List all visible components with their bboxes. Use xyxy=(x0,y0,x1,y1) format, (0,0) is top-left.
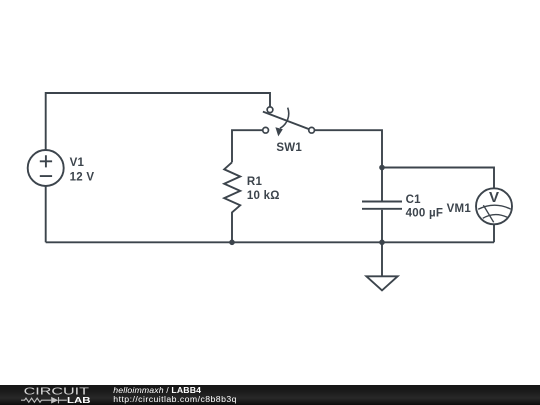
svg-text:V: V xyxy=(489,189,499,206)
svg-text:SW1: SW1 xyxy=(276,142,302,154)
svg-text:10 kΩ: 10 kΩ xyxy=(247,190,280,202)
svg-text:http://circuitlab.com/c8b8b3q: http://circuitlab.com/c8b8b3q xyxy=(113,393,237,403)
svg-text:LAB: LAB xyxy=(67,395,91,404)
svg-text:400 µF: 400 µF xyxy=(406,208,444,220)
svg-text:C1: C1 xyxy=(406,194,422,206)
svg-text:V1: V1 xyxy=(70,157,85,169)
svg-text:12 V: 12 V xyxy=(70,171,95,183)
svg-text:VM1: VM1 xyxy=(447,203,472,215)
svg-text:R1: R1 xyxy=(247,176,263,188)
